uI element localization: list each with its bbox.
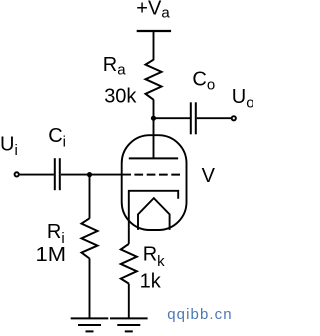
supply rail +Va [137, 30, 171, 32]
cathode [129, 191, 178, 244]
wire Co to output terminal [197, 117, 231, 119]
resistor Ra [146, 60, 162, 100]
node B junction [87, 172, 92, 177]
wire Ci to node B and grid lead [61, 174, 131, 176]
tube V envelope [122, 135, 187, 230]
svg-text:Uo: Uo [232, 86, 253, 112]
svg-text:V: V [202, 165, 216, 187]
grid dashed [134, 174, 180, 176]
heater [138, 198, 170, 230]
svg-text:+Va: +Va [136, 0, 170, 22]
wire input terminal to Ci [20, 174, 54, 176]
capacitor Ci [55, 158, 60, 190]
svg-text:Ra: Ra [103, 54, 126, 79]
svg-text:Ci: Ci [48, 125, 66, 151]
svg-text:Ui: Ui [0, 133, 18, 159]
input terminal Ui [15, 172, 19, 176]
svg-text:30k: 30k [104, 86, 137, 108]
ground G1 [71, 318, 109, 331]
wire Ri to ground [89, 258, 91, 318]
capacitor Co [191, 102, 196, 134]
wire node A to Co [154, 117, 191, 119]
svg-text:1M: 1M [36, 244, 67, 266]
anode lead wire [153, 118, 155, 158]
svg-text:Co: Co [192, 69, 215, 94]
node A junction [151, 116, 156, 121]
wire Rk to ground [128, 284, 130, 319]
svg-text:1k: 1k [140, 271, 162, 293]
wire Ra to node A [153, 100, 155, 119]
ground G2 [110, 318, 148, 331]
anode plate [129, 157, 178, 159]
svg-text:qqibb.cn: qqibb.cn [167, 306, 233, 323]
wire node B to Ri [89, 175, 91, 219]
wire rail to Ra [153, 31, 155, 60]
resistor Ri [82, 218, 98, 258]
output terminal Uo [232, 116, 236, 120]
resistor Rk [121, 244, 137, 284]
svg-text:Rk: Rk [143, 244, 165, 270]
